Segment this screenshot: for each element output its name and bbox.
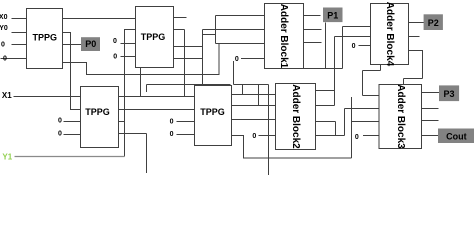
- svg-text:Adder Block3: Adder Block3: [395, 84, 406, 149]
- wire U1 out3 to P0: [63, 44, 82, 46]
- wire U4 out3 to A2 in3: [231, 85, 276, 176]
- wire 0 input3 to U1: [12, 44, 27, 46]
- TPPG U3: [81, 87, 119, 148]
- svg-text:X1: X1: [2, 91, 12, 100]
- svg-text:0: 0: [58, 117, 62, 124]
- svg-text:0: 0: [113, 38, 117, 45]
- wire U2 out1 stub: [173, 17, 187, 19]
- wire U3 out1 to U4 in1: [118, 96, 195, 98]
- wire ladder rung node C: [203, 34, 216, 36]
- svg-text:0: 0: [352, 43, 356, 50]
- wire U2 out3: [173, 46, 203, 48]
- svg-text:0: 0: [355, 134, 359, 141]
- wire A3 out2 stub: [422, 108, 439, 110]
- port box P1: [323, 8, 343, 23]
- svg-text:P2: P2: [428, 18, 439, 28]
- wire vertical from U2 bottom: [140, 68, 142, 97]
- TPPG U1: [27, 9, 63, 69]
- wire A1 in2: [203, 29, 265, 31]
- svg-text:TPPG: TPPG: [141, 32, 166, 42]
- wire A2 out4 to A3 in2: [315, 109, 380, 136]
- wire A3 out4 to Cout: [422, 135, 439, 137]
- wire 0 input4 to A3: [363, 135, 379, 137]
- wire 0 input4 to U4: [177, 134, 195, 136]
- wire U1 out1 to U2 in1: [63, 18, 136, 20]
- wire U3 out4 to U4 top corner: [118, 85, 231, 174]
- wire 0 input4 to U2: [121, 56, 136, 58]
- wire A3 out1 to P3: [422, 92, 443, 94]
- svg-text:Adder Block1: Adder Block1: [278, 4, 289, 69]
- wire 0 input3 to U3: [64, 121, 81, 123]
- wire 0 input4 to U1: [1, 58, 27, 60]
- Adder Block2 A2: [276, 84, 316, 150]
- wire 0 input4 to A2: [259, 135, 276, 137]
- wire A1 out2 stub: [303, 29, 322, 31]
- wire A4 out2 stub: [409, 36, 420, 38]
- TPPG U2: [136, 7, 174, 68]
- wire U4 out1 to A2 in1: [231, 94, 276, 96]
- wire 0 to A1 in4: [241, 58, 265, 60]
- svg-text:P0: P0: [85, 39, 96, 49]
- wire A2 out3 jog: [315, 122, 336, 136]
- wire bus riser to A3 in3: [352, 97, 380, 158]
- wire Y1 gray horizontal: [15, 156, 125, 158]
- svg-text:P3: P3: [443, 89, 454, 99]
- svg-text:Adder Block2: Adder Block2: [290, 84, 301, 149]
- wire X0 input to U1: [12, 18, 27, 20]
- svg-text:TPPG: TPPG: [200, 107, 225, 117]
- svg-text:Y1: Y1: [2, 153, 12, 162]
- wire vertical node D: [215, 16, 217, 44]
- wire 0 input4 to U3: [64, 134, 81, 136]
- svg-text:Y0: Y0: [0, 25, 8, 32]
- wire rung node E: [242, 85, 244, 95]
- wire 0 input3 to U4: [177, 121, 195, 123]
- wire vertical node C to U4 top: [202, 30, 204, 86]
- svg-text:Adder Block4: Adder Block4: [384, 2, 395, 67]
- svg-text:0: 0: [170, 131, 174, 138]
- svg-text:0: 0: [170, 119, 174, 126]
- svg-text:0: 0: [3, 56, 7, 63]
- wire rail node P1 to A4 in2: [303, 27, 371, 69]
- wire U1 out2 to U3 in2: [63, 33, 81, 110]
- wire Y0 input to U1: [12, 32, 27, 34]
- wire U3 out2 to U4 in2: [118, 109, 195, 111]
- svg-text:Cout: Cout: [446, 132, 467, 142]
- wire A1 in1: [216, 15, 265, 17]
- wire U2 out4: [173, 58, 203, 60]
- svg-text:0: 0: [235, 56, 239, 63]
- wire U4 out4 bottom bus: [231, 136, 352, 159]
- wire A1 out3 stub: [303, 42, 322, 44]
- wire A3 out3 stub: [422, 120, 439, 122]
- wire A1 in3: [216, 43, 265, 45]
- wire U2 out2 drop: [173, 30, 185, 97]
- Adder Block3 A3: [379, 85, 422, 149]
- svg-text:0: 0: [1, 42, 5, 49]
- wire A2 out1 and out2 to A4 in3: [315, 37, 371, 106]
- port box P3: [439, 85, 459, 101]
- port box P2: [424, 14, 443, 30]
- svg-text:TPPG: TPPG: [85, 107, 110, 117]
- wire 0 net jog to A2 in2: [234, 61, 276, 106]
- svg-text:0: 0: [58, 131, 62, 138]
- svg-text:0: 0: [113, 53, 117, 60]
- TPPG U4: [195, 86, 232, 146]
- wire 0 input4 to A4: [359, 45, 371, 47]
- wire U3 out3 stub: [118, 121, 125, 123]
- wire X1 input to U3: [14, 96, 81, 98]
- wire A4 out1 to P2: [409, 22, 426, 24]
- wire P1 drop to rail: [325, 23, 327, 69]
- wire 0 input3 to U2: [121, 43, 136, 45]
- svg-text:P1: P1: [327, 10, 338, 20]
- wire Y1 vertical to U2 in2: [125, 30, 136, 157]
- port box P0: [81, 37, 100, 51]
- Adder Block4 A4: [371, 4, 409, 65]
- svg-text:0: 0: [252, 133, 256, 140]
- wire A4 out3 to A3 top: [404, 51, 423, 85]
- wire A1 out1 to P1: [303, 15, 321, 17]
- wire A4 bottom to A3 in1: [363, 65, 381, 96]
- svg-text:TPPG: TPPG: [33, 33, 58, 43]
- Adder Block1 A1: [265, 4, 304, 69]
- svg-text:X0: X0: [0, 14, 8, 21]
- wire U1 out4 to A1 in3: [63, 44, 220, 75]
- port box Cout: [438, 129, 474, 144]
- wire U4 out2: [231, 105, 259, 107]
